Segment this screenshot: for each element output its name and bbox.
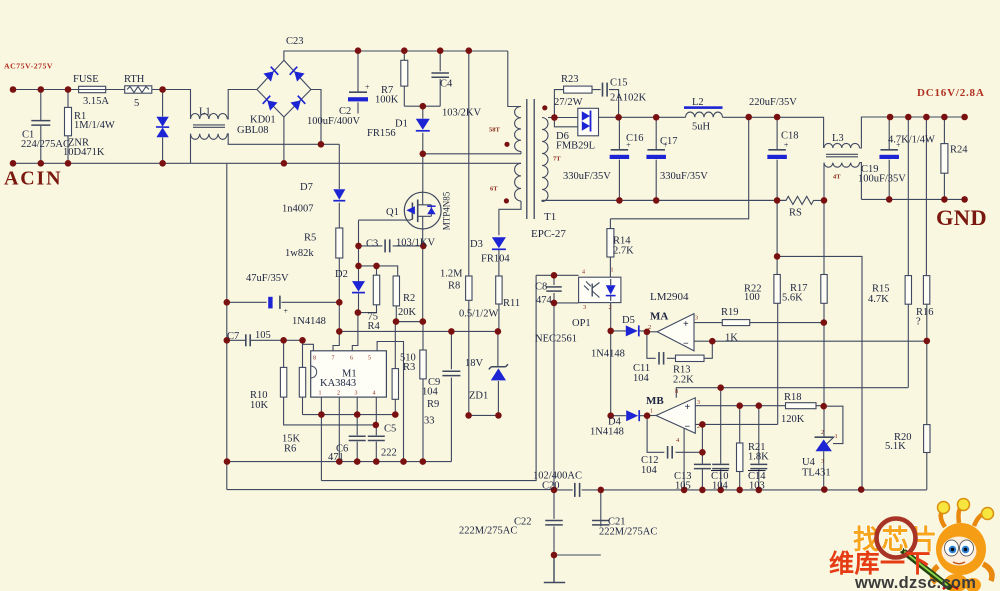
svg-text:2.7K: 2.7K xyxy=(613,246,634,257)
svg-text:R9: R9 xyxy=(427,399,439,410)
svg-text:104: 104 xyxy=(641,465,658,476)
svg-text:3: 3 xyxy=(821,459,824,465)
svg-text:47uF/35V: 47uF/35V xyxy=(246,273,289,284)
svg-text:+: + xyxy=(284,307,289,316)
svg-text:R8: R8 xyxy=(448,281,460,292)
svg-text:MTP4N85: MTP4N85 xyxy=(442,191,452,230)
svg-text:100K: 100K xyxy=(375,95,399,106)
svg-text:+: + xyxy=(784,140,789,149)
svg-text:2: 2 xyxy=(337,391,340,397)
svg-text:4: 4 xyxy=(582,270,585,276)
svg-text:FR104: FR104 xyxy=(481,254,510,265)
svg-text:3: 3 xyxy=(697,400,700,406)
svg-text:103/1KV: 103/1KV xyxy=(396,238,436,249)
svg-text:1.2M: 1.2M xyxy=(440,269,463,280)
svg-text:222M/275AC: 222M/275AC xyxy=(599,527,657,538)
svg-text:MB: MB xyxy=(646,395,664,407)
svg-text:R23: R23 xyxy=(561,74,579,85)
svg-text:5: 5 xyxy=(368,356,371,362)
svg-text:5.6K: 5.6K xyxy=(782,293,803,304)
svg-text:Q1: Q1 xyxy=(386,207,399,218)
svg-text:GND: GND xyxy=(936,205,987,230)
svg-text:C23: C23 xyxy=(286,36,304,47)
svg-text:EPC-27: EPC-27 xyxy=(531,228,566,240)
svg-text:FR156: FR156 xyxy=(367,128,396,139)
svg-text:58T: 58T xyxy=(489,127,501,134)
svg-text:ACIN: ACIN xyxy=(4,168,62,190)
svg-text:R4: R4 xyxy=(368,321,381,332)
svg-text:R11: R11 xyxy=(503,298,520,309)
svg-text:ZD1: ZD1 xyxy=(469,391,488,402)
svg-text:D3: D3 xyxy=(470,239,483,250)
svg-text:104: 104 xyxy=(633,373,650,384)
svg-text:20K: 20K xyxy=(398,307,417,318)
svg-text:10K: 10K xyxy=(250,400,269,411)
svg-text:100uF/35V: 100uF/35V xyxy=(858,174,906,185)
svg-text:120K: 120K xyxy=(781,414,805,425)
svg-text:C16: C16 xyxy=(626,133,644,144)
svg-text:KA3843: KA3843 xyxy=(320,378,356,389)
svg-text:L3: L3 xyxy=(832,133,844,144)
svg-text:8: 8 xyxy=(313,356,316,362)
svg-text:L1: L1 xyxy=(199,107,211,118)
svg-text:R3: R3 xyxy=(403,362,415,373)
svg-text:1.8K: 1.8K xyxy=(748,452,769,463)
svg-text:C3: C3 xyxy=(366,239,378,250)
svg-text:2: 2 xyxy=(697,424,700,430)
svg-text:R2: R2 xyxy=(403,293,415,304)
svg-text:D5: D5 xyxy=(622,315,635,326)
svg-text:R18: R18 xyxy=(784,392,802,403)
svg-text:7: 7 xyxy=(332,356,335,362)
svg-text:7T: 7T xyxy=(553,156,561,163)
svg-text:2A102K: 2A102K xyxy=(610,93,647,104)
svg-text:471: 471 xyxy=(328,452,344,463)
svg-text:?: ? xyxy=(916,317,921,328)
svg-text:−: − xyxy=(685,422,691,433)
svg-text:4: 4 xyxy=(373,391,376,397)
svg-text:1n4007: 1n4007 xyxy=(282,204,314,215)
svg-text:1N4148: 1N4148 xyxy=(292,316,326,327)
svg-text:NEC2561: NEC2561 xyxy=(535,334,577,345)
svg-text:3: 3 xyxy=(355,391,358,397)
svg-text:C15: C15 xyxy=(610,78,628,89)
svg-text:5: 5 xyxy=(134,98,139,109)
svg-text:222: 222 xyxy=(381,448,397,459)
svg-text:+: + xyxy=(685,402,691,413)
svg-text:5.1K: 5.1K xyxy=(885,441,906,452)
svg-text:104: 104 xyxy=(422,387,439,398)
svg-text:18V: 18V xyxy=(465,358,484,369)
svg-text:1: 1 xyxy=(611,268,614,274)
svg-text:4.7K/1/4W: 4.7K/1/4W xyxy=(888,135,935,146)
svg-text:1w82k: 1w82k xyxy=(285,248,314,259)
svg-text:1N4148: 1N4148 xyxy=(591,349,625,360)
svg-text:TL431: TL431 xyxy=(802,468,831,479)
svg-text:6T: 6T xyxy=(490,186,498,193)
svg-text:103/2KV: 103/2KV xyxy=(442,108,482,119)
svg-text:2: 2 xyxy=(609,304,612,311)
svg-text:4T: 4T xyxy=(833,174,841,181)
svg-text:2: 2 xyxy=(821,430,824,436)
svg-text:D1: D1 xyxy=(395,119,408,130)
svg-text:R19: R19 xyxy=(721,307,739,318)
svg-text:RS: RS xyxy=(789,208,802,219)
svg-text:+: + xyxy=(365,83,370,92)
svg-text:T1: T1 xyxy=(544,211,556,223)
svg-text:−: − xyxy=(683,339,689,350)
svg-text:1: 1 xyxy=(835,433,838,440)
svg-text:L2: L2 xyxy=(692,97,704,108)
svg-text:330uF/35V: 330uF/35V xyxy=(660,171,708,182)
svg-text:2.2K: 2.2K xyxy=(673,375,694,386)
svg-text:FUSE: FUSE xyxy=(73,74,99,85)
svg-text:1: 1 xyxy=(650,409,653,415)
svg-text:FMB29L: FMB29L xyxy=(556,141,595,152)
svg-text:MA: MA xyxy=(650,311,668,323)
svg-text:1M/1/4W: 1M/1/4W xyxy=(74,120,115,131)
svg-text:+: + xyxy=(683,319,689,330)
svg-text:100uF/400V: 100uF/400V xyxy=(307,116,361,127)
svg-text:105: 105 xyxy=(255,330,271,341)
svg-text:222M/275AC: 222M/275AC xyxy=(459,526,517,537)
svg-text:R15: R15 xyxy=(872,284,890,295)
svg-text:R6: R6 xyxy=(284,444,296,455)
svg-text:100: 100 xyxy=(744,292,760,303)
svg-text:103: 103 xyxy=(749,481,765,492)
svg-text:474: 474 xyxy=(536,295,553,306)
svg-text:U4: U4 xyxy=(802,457,816,468)
svg-text:D7: D7 xyxy=(300,182,313,193)
svg-text:330uF/35V: 330uF/35V xyxy=(563,171,611,182)
svg-text:33: 33 xyxy=(424,416,435,427)
svg-text:GBL08: GBL08 xyxy=(237,125,269,136)
svg-text:105: 105 xyxy=(675,481,691,492)
svg-text:4.7K: 4.7K xyxy=(868,294,889,305)
svg-text:10D471K: 10D471K xyxy=(63,147,105,158)
svg-text:6: 6 xyxy=(350,356,353,362)
svg-text:C18: C18 xyxy=(781,131,799,142)
svg-text:C8: C8 xyxy=(535,282,547,293)
svg-text:C4: C4 xyxy=(440,79,453,90)
svg-text:5uH: 5uH xyxy=(692,122,711,133)
svg-text:www.dzsc.com: www.dzsc.com xyxy=(854,574,976,591)
svg-text:LM2904: LM2904 xyxy=(650,291,689,303)
svg-text:OP1: OP1 xyxy=(572,318,591,329)
svg-text:1N4148: 1N4148 xyxy=(590,427,624,438)
svg-text:27/2W: 27/2W xyxy=(554,97,583,108)
svg-text:3: 3 xyxy=(583,304,586,311)
svg-text:D2: D2 xyxy=(335,269,348,280)
svg-text:RTH: RTH xyxy=(124,74,145,85)
svg-text:8: 8 xyxy=(675,388,678,395)
svg-text:C20: C20 xyxy=(542,481,560,492)
svg-text:C7: C7 xyxy=(227,331,239,342)
svg-text:C5: C5 xyxy=(384,424,396,435)
svg-text:104: 104 xyxy=(712,481,729,492)
svg-text:1: 1 xyxy=(319,391,322,397)
svg-text:3.15A: 3.15A xyxy=(83,96,109,107)
svg-text:C17: C17 xyxy=(660,136,678,147)
svg-text:1K: 1K xyxy=(725,333,738,344)
svg-text:R24: R24 xyxy=(950,145,968,156)
svg-text:2: 2 xyxy=(648,324,651,331)
svg-text:R5: R5 xyxy=(304,233,316,244)
svg-text:AC75V-275V: AC75V-275V xyxy=(4,62,53,71)
svg-text:3: 3 xyxy=(695,316,698,322)
svg-text:DC16V/2.8A: DC16V/2.8A xyxy=(917,87,985,99)
svg-text:0.5/1/2W: 0.5/1/2W xyxy=(459,309,498,320)
svg-text:220uF/35V: 220uF/35V xyxy=(749,97,797,108)
